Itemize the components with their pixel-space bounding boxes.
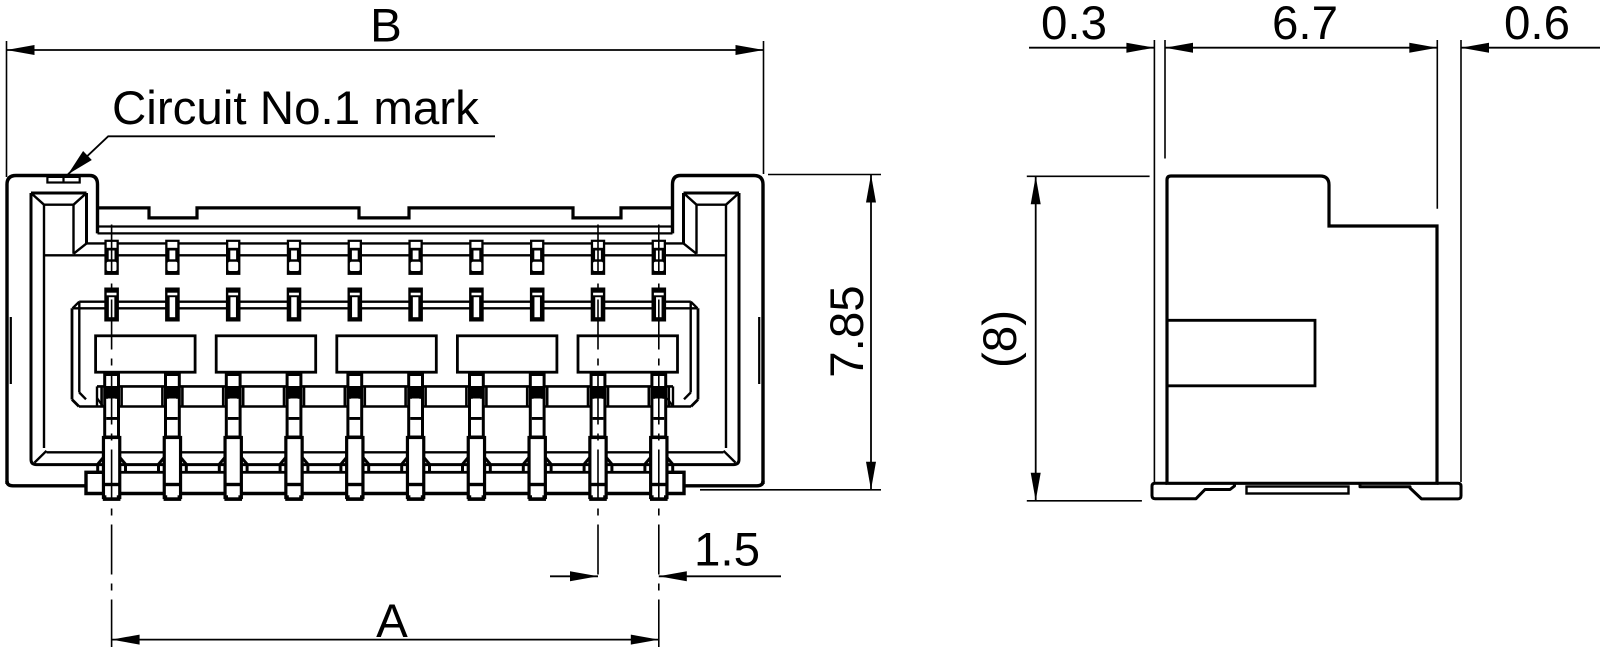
svg-text:6.7: 6.7 bbox=[1272, 0, 1338, 50]
svg-text:(8): (8) bbox=[974, 310, 1027, 368]
svg-text:A: A bbox=[376, 595, 408, 648]
svg-text:0.6: 0.6 bbox=[1504, 0, 1570, 50]
svg-text:1.5: 1.5 bbox=[694, 524, 760, 577]
svg-text:B: B bbox=[370, 0, 402, 53]
svg-text:0.3: 0.3 bbox=[1041, 0, 1107, 50]
svg-text:7.85: 7.85 bbox=[821, 285, 874, 377]
svg-text:Circuit No.1 mark: Circuit No.1 mark bbox=[112, 82, 479, 135]
